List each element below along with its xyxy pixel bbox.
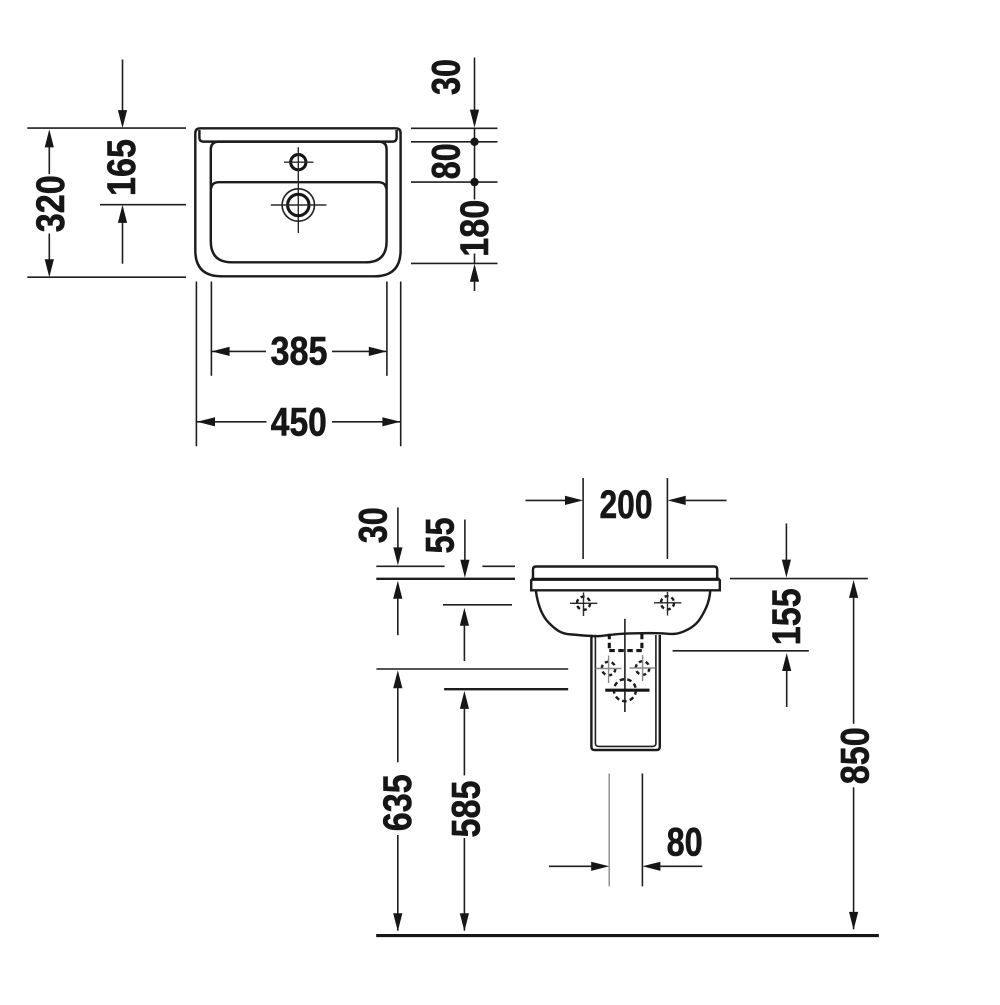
svg-text:585: 585: [444, 781, 488, 838]
drain pipe dashed left: [608, 634, 611, 651]
pipe center line: [624, 619, 626, 712]
basin inner bowl outline: [211, 142, 387, 263]
ref line basin holes left: [443, 604, 512, 606]
dim 320 arrow up: [45, 129, 54, 147]
dot terminator at 141.8: [470, 138, 478, 146]
dim 165 arrow up: [118, 205, 127, 223]
dim 155 top shaft: [785, 524, 787, 561]
svg-text:450: 450: [271, 401, 327, 445]
svg-text:180: 180: [453, 200, 497, 257]
slab top band: [533, 567, 717, 580]
dim 450 line: [197, 421, 267, 423]
dim 385 arrow right: [369, 347, 387, 356]
svg-text:635: 635: [376, 774, 420, 831]
dim 200 ext left: [582, 478, 584, 559]
ext line right y141.8: [411, 141, 498, 143]
dim 165 arrow down: [118, 110, 127, 128]
ref line A left (top surface): [376, 565, 444, 567]
ext line top-left (320 top): [27, 127, 186, 129]
ext line 385 left: [210, 282, 212, 376]
siphon crosshair horizontal: [605, 689, 649, 692]
dim 385 arrow left: [212, 347, 230, 356]
drain outer circle: [282, 189, 314, 221]
dim 585 arrows and shaft: [460, 608, 469, 626]
faucet crosshair horizontal: [284, 161, 313, 163]
svg-text:850: 850: [834, 727, 878, 784]
center crosshair vertical: [297, 147, 299, 233]
basin fixing hole left (dashed): [577, 597, 590, 610]
ext line right y182.1: [411, 181, 498, 183]
pedestal fixing hole left (dashed): [602, 662, 616, 676]
slab lower band: [531, 579, 720, 590]
ext line 385 right: [386, 282, 388, 376]
dim 450 arrow right: [382, 417, 400, 426]
dim 30 shaft: [397, 508, 399, 549]
dim 850 shaft: [849, 580, 858, 598]
drain pipe dashed bottom: [609, 649, 642, 652]
dim 80 ext left (gray): [608, 774, 610, 887]
svg-text:200: 200: [600, 483, 653, 527]
ref line siphon top right: [673, 650, 809, 652]
faucet hole circle: [291, 155, 306, 170]
ext line 450 right: [400, 282, 402, 447]
dim 200 right arrow: [686, 499, 727, 501]
svg-text:30: 30: [351, 507, 395, 543]
siphon dashed circle: [614, 679, 636, 701]
basin outer outline: [195, 128, 400, 276]
pedestal outer outline: [591, 635, 659, 750]
dim 450 arrow left: [197, 417, 215, 426]
ext line 450 left: [195, 282, 197, 447]
basin body outline: [536, 591, 711, 637]
dim 155 bottom shaft: [782, 653, 791, 671]
ref line pedestal holes left: [376, 668, 568, 670]
slab bold mid line: [531, 578, 720, 581]
dim 80 right arrow: [642, 862, 660, 871]
ext line right y263.4: [411, 262, 498, 264]
drain inner circle: [288, 194, 309, 215]
dim 320 shaft: [48, 146, 50, 174]
dim 320 arrow down: [45, 259, 54, 277]
dim 80 left arrow: [549, 865, 592, 867]
floor line: [376, 934, 879, 937]
ref line B left (rim bottom): [376, 578, 515, 580]
ext line bottom-left (320 bottom): [27, 276, 186, 278]
basin fixing hole right (dashed): [661, 596, 674, 609]
svg-text:165: 165: [100, 139, 144, 196]
dim 30 arrow down: [470, 110, 479, 128]
svg-text:320: 320: [29, 175, 73, 232]
dim 55 shaft: [464, 520, 466, 561]
dot terminator at 182.1: [470, 178, 478, 186]
dim 80 ext right: [641, 774, 643, 887]
svg-text:385: 385: [271, 330, 328, 374]
ext line drain level (165 bottom): [100, 204, 186, 206]
dim 200 ext right: [666, 478, 668, 559]
basin rim inner line: [199, 130, 396, 142]
ext line right y128: [411, 127, 498, 129]
svg-text:55: 55: [418, 518, 462, 554]
dim 180 arrow up below: [470, 264, 479, 282]
ref line B right: [730, 578, 868, 580]
svg-text:80: 80: [667, 820, 703, 864]
svg-text:30: 30: [424, 59, 468, 95]
bowl shelf line: [211, 182, 386, 188]
dim 165 top shaft: [122, 60, 124, 112]
drain crosshair horizontal: [271, 204, 327, 206]
dim chain shaft 80/180: [474, 128, 476, 199]
ref line siphon left: [444, 688, 568, 690]
dim 200 left arrow: [526, 499, 567, 501]
svg-text:80: 80: [424, 143, 468, 179]
svg-text:155: 155: [765, 588, 809, 645]
dim 165 bottom shaft: [122, 222, 124, 264]
dim 635 arrows and shaft: [393, 581, 402, 599]
pedestal inner outline: [595, 635, 656, 747]
dim 30 top shaft (right): [474, 58, 476, 111]
pedestal fixing hole right (dashed): [636, 661, 650, 675]
drain pipe dashed right: [640, 634, 643, 651]
dim 385 line: [212, 350, 266, 352]
